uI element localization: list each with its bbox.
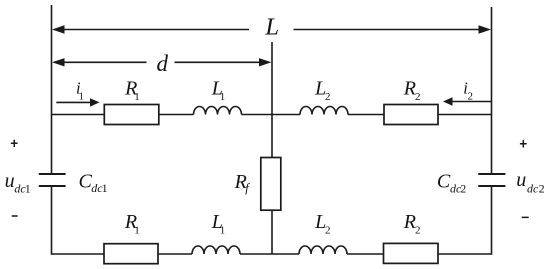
svg-text:1: 1 (134, 225, 140, 237)
svg-text:d: d (157, 51, 169, 76)
svg-text:2: 2 (325, 91, 331, 103)
svg-text:dc: dc (527, 181, 539, 195)
svg-text:2: 2 (460, 182, 466, 196)
svg-text:1: 1 (25, 181, 31, 195)
svg-text:2: 2 (539, 181, 545, 195)
svg-text:R: R (403, 211, 416, 233)
svg-text:u: u (5, 170, 15, 192)
svg-text:2: 2 (415, 225, 421, 237)
svg-text:L: L (264, 14, 279, 41)
svg-text:1: 1 (102, 181, 108, 195)
svg-text:2: 2 (468, 90, 474, 102)
svg-text:1: 1 (220, 91, 226, 103)
svg-text:1: 1 (79, 90, 85, 102)
svg-text:1: 1 (220, 225, 226, 237)
svg-text:C: C (437, 171, 451, 193)
svg-text:u: u (516, 169, 526, 191)
svg-text:f: f (245, 181, 250, 195)
svg-text:1: 1 (134, 91, 140, 103)
svg-text:2: 2 (325, 225, 331, 237)
svg-text:2: 2 (415, 91, 421, 103)
svg-text:R: R (403, 78, 416, 100)
